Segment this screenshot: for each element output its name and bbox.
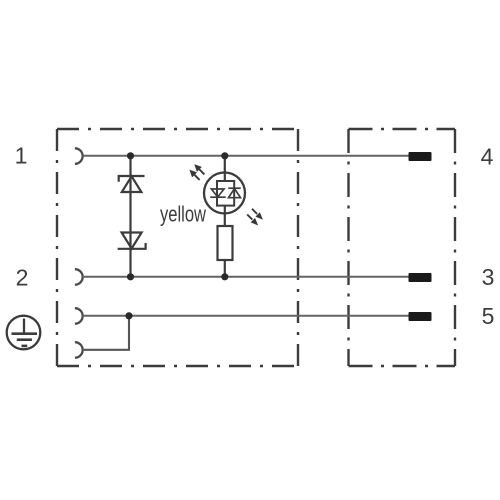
contact arc pin 5a xyxy=(75,308,83,324)
wire pin2 to terminal 3 xyxy=(83,276,409,278)
protective earth symbol PE xyxy=(7,316,41,350)
svg-text:2: 2 xyxy=(16,265,29,291)
svg-text:5: 5 xyxy=(482,303,495,329)
wire LED branch xyxy=(224,156,226,277)
LED right diode (up) xyxy=(228,188,240,198)
zener diode D2 xyxy=(118,233,146,249)
valve box (right, dash-dot) xyxy=(349,129,456,366)
terminal 5 xyxy=(409,312,432,321)
connector housing box (left, dash-dot) xyxy=(57,129,298,366)
wire pin1 to terminal 4 xyxy=(83,155,409,157)
wire pin5 to terminal 5 xyxy=(83,315,409,317)
svg-text:3: 3 xyxy=(482,264,495,290)
wire lower contact stub xyxy=(83,316,129,350)
LED inner loop xyxy=(217,181,234,206)
terminal 4 xyxy=(409,152,432,161)
svg-text:4: 4 xyxy=(481,144,494,170)
junction dot wire2/resistor xyxy=(221,273,228,280)
contact arc pin 5b xyxy=(75,342,83,358)
contact arc pin 1 xyxy=(75,148,83,164)
LED lamp wire stubs xyxy=(224,171,226,215)
wire suppressor branch xyxy=(129,156,131,277)
LED left diode (down) xyxy=(210,189,226,197)
terminal 3 xyxy=(409,273,432,282)
LED lamp circle xyxy=(204,173,245,214)
light arrows upper-left xyxy=(191,166,204,180)
junction dot wire1/LED xyxy=(221,152,228,159)
resistor R xyxy=(218,226,233,260)
junction dot wire1/zener xyxy=(127,152,134,159)
junction dot wire5/stub xyxy=(125,312,132,319)
contact arc pin 2 xyxy=(75,269,83,285)
zener diode D1 xyxy=(119,176,145,192)
svg-text:yellow: yellow xyxy=(160,202,206,227)
light arrows lower-right xyxy=(247,209,261,224)
junction dot wire2/zener xyxy=(127,273,134,280)
svg-text:1: 1 xyxy=(15,143,28,169)
